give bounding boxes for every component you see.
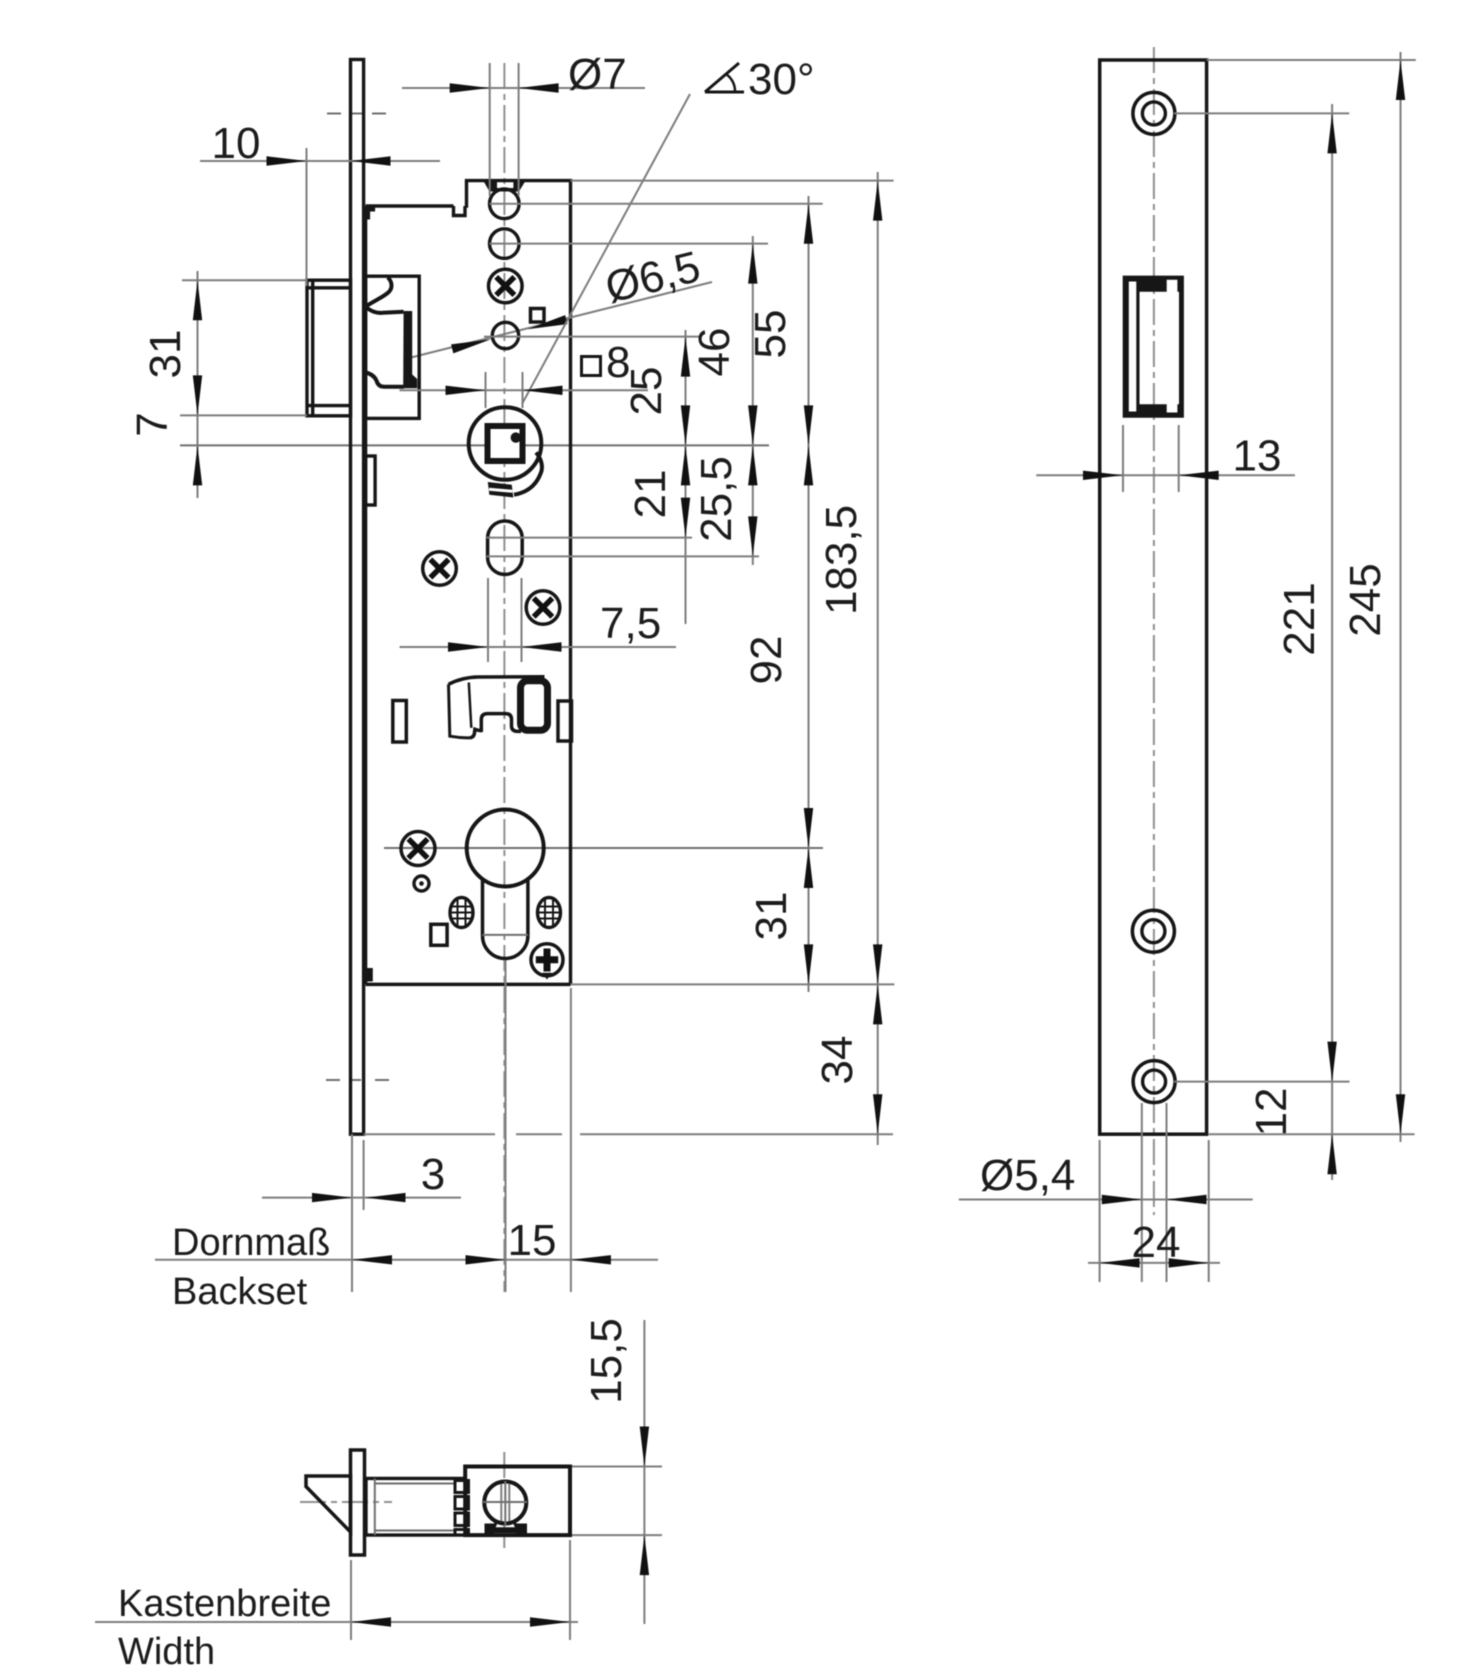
dim Ø7 ext lines (489, 63, 491, 196)
right guide slot (558, 701, 572, 741)
arrows 25.5 (748, 445, 757, 485)
ball stem lines (500, 1484, 502, 1521)
case plan right block (465, 1467, 570, 1536)
centre axis vertical (lock centreline) (503, 63, 505, 1292)
hub foot (488, 482, 514, 498)
ext line hole bottom (221/12) (1174, 1081, 1350, 1083)
ext line plate bottom (245/12) (1209, 1133, 1415, 1135)
slot line 25.5 (487, 555, 760, 557)
svg-text:245: 245 (1341, 563, 1390, 636)
arrows 34 (873, 984, 882, 1024)
screw S5 phillips (531, 944, 563, 980)
ext line plate top (245) (1207, 59, 1416, 61)
ext line faceplate bottom (34) (364, 1133, 495, 1135)
latch cutout with ears (1123, 276, 1184, 418)
svg-text:31: 31 (747, 892, 796, 941)
arrows 55 (804, 204, 813, 244)
striking plate body (1100, 60, 1207, 1134)
dim Kastenbreite line (95, 1621, 578, 1623)
faceplate plan (351, 1450, 365, 1555)
hub lobe (514, 453, 542, 495)
lock case outline (366, 181, 571, 985)
screw hole C1 (Ø7) (490, 189, 520, 219)
dim Ø7 line (402, 87, 645, 89)
dim 10 ext line (306, 148, 308, 286)
svg-text:Ø7: Ø7 (568, 50, 627, 99)
screw S1 (489, 269, 523, 303)
dim 31 latch ext lines (182, 279, 307, 281)
faceplate top centre mark (327, 113, 341, 115)
dim Ø5,4 ext lines (1141, 1103, 1143, 1282)
arrows 92 (804, 445, 813, 485)
dim square8 line (400, 389, 649, 391)
ext line hole top (221) (1174, 112, 1349, 114)
arrows 31 lower (804, 848, 813, 888)
arrows 46 (748, 244, 757, 284)
screw S3 (526, 591, 560, 625)
screw hole C2 (Ø7) (490, 229, 520, 259)
svg-text:8: 8 (606, 338, 630, 387)
spindle hub circle (469, 407, 542, 480)
svg-text:10: 10 (212, 119, 261, 168)
cylinder hole big circle (467, 810, 544, 887)
screw S4 (401, 832, 435, 866)
arrows 21 (681, 445, 690, 485)
hub square dot (511, 432, 521, 442)
ball skirt (493, 1517, 518, 1529)
dim Kastenbreite ext lines (350, 1560, 352, 1640)
small square marker (531, 309, 545, 323)
svg-text:24: 24 (1132, 1218, 1181, 1267)
arrows 25 (681, 337, 690, 377)
left guide slot (393, 701, 407, 743)
svg-text:55: 55 (746, 310, 795, 359)
svg-text:13: 13 (1233, 432, 1282, 481)
dim 15,5 line (643, 1320, 645, 1624)
dim 15,5 ext lines (572, 1466, 662, 1468)
dim 3 ext line (363, 1140, 365, 1210)
faceplate (edge view, 3mm) (351, 60, 364, 1135)
dim Ø5,4 line (959, 1199, 1253, 1201)
hole Ø6.5 (492, 322, 518, 348)
case bottom-left tab (366, 968, 373, 982)
oval slot (488, 521, 523, 574)
svg-text:Ø5,4: Ø5,4 (980, 1151, 1075, 1200)
dim line 25/21 column (685, 330, 687, 624)
svg-text:15: 15 (508, 1216, 557, 1265)
bottom view centre line horizontal (300, 1501, 392, 1503)
svg-text:31: 31 (141, 330, 190, 379)
svg-text:Kastenbreite: Kastenbreite (118, 1583, 331, 1625)
dim 31/7 latch column (197, 271, 199, 498)
angle symbol (705, 63, 744, 92)
cylinder centre line horizontal (384, 847, 823, 849)
hatched oval left (450, 898, 473, 928)
svg-text:21: 21 (626, 470, 675, 519)
screw S2 (423, 552, 457, 586)
backset/15 ext lines (505, 960, 507, 1292)
dim 245 column (1400, 52, 1402, 1142)
dim line 46/25.5 column (752, 236, 754, 565)
countersink cut at case top (483, 181, 525, 192)
ext line C1 centre (55) (490, 203, 823, 205)
Ø6.5 arrow left (451, 335, 492, 354)
dim line 183.5/34 column (877, 172, 879, 1145)
small pin circle (414, 876, 429, 891)
svg-text:15,5: 15,5 (582, 1318, 631, 1404)
svg-text:Backset: Backset (172, 1271, 308, 1313)
ext line C2 centre (46) (490, 243, 769, 245)
Ø6.5 hole centre line (484, 336, 702, 338)
svg-text:Width: Width (118, 1631, 215, 1673)
striking plate centre line (1153, 47, 1155, 1215)
Ø6.5 arrow right (526, 315, 567, 334)
cylinder throat (483, 880, 528, 936)
dim 3 line (262, 1197, 461, 1199)
svg-text:92: 92 (742, 636, 791, 685)
svg-text:12: 12 (1247, 1088, 1296, 1137)
plate hole middle (1132, 910, 1174, 952)
latch wedge plan (306, 1476, 351, 1532)
ball detent (484, 1482, 526, 1524)
svg-text:46: 46 (690, 328, 739, 377)
30deg leader (522, 94, 690, 404)
front edge slot below latch (366, 456, 376, 505)
plate hole bottom (1133, 1061, 1175, 1103)
svg-text:183,5: 183,5 (817, 505, 866, 615)
hub square 8mm (488, 426, 523, 461)
hatched oval right (538, 898, 561, 928)
label square 8 (582, 357, 601, 376)
ext line case bottom (183.5/31) (571, 983, 895, 985)
dim square8 ext lines (485, 372, 487, 408)
Ø6.5 leader line (411, 282, 712, 358)
arrows 183.5 (873, 181, 882, 221)
bottom view centre line vertical (503, 1452, 505, 1548)
case bottom edge (366, 983, 571, 987)
dim 7,5 line (400, 646, 677, 648)
dim 24 line (1088, 1262, 1220, 1264)
faceplate bottom centre mark (326, 1079, 340, 1081)
plate hole top (1133, 92, 1175, 134)
svg-text:25,5: 25,5 (692, 456, 741, 542)
latch head (307, 280, 351, 416)
ext line case top to 183.5 (571, 180, 894, 182)
svg-text:34: 34 (813, 1036, 862, 1085)
small rect opening (431, 924, 447, 945)
cylinder bottom arc (483, 936, 528, 959)
latch body in case (366, 276, 420, 418)
dim 24 ext lines (1099, 1140, 1101, 1282)
ball pedestal blocks (485, 1524, 495, 1536)
spring hatch column (455, 1481, 469, 1536)
spring bracket (449, 677, 548, 738)
svg-text:7,5: 7,5 (600, 599, 661, 648)
case top-left tab (366, 207, 376, 220)
svg-text:221: 221 (1275, 582, 1324, 655)
dim 221/12 column (1331, 104, 1333, 1180)
dim 7,5 ext lines (487, 578, 489, 662)
dim 13 line (1036, 474, 1295, 476)
dim 13 ext lines (1122, 425, 1124, 492)
slot line 21 (487, 537, 693, 539)
case plan left block (366, 1478, 465, 1535)
dim line 55/92/31 column (808, 196, 810, 992)
svg-text:3: 3 (421, 1150, 445, 1199)
dim 10 line (200, 160, 440, 162)
hub centre line horizontal (180, 444, 769, 446)
svg-text:30°: 30° (748, 55, 815, 104)
svg-text:Dornmaß: Dornmaß (172, 1222, 330, 1264)
svg-text:7: 7 (128, 412, 177, 436)
backset dim line (155, 1259, 658, 1261)
